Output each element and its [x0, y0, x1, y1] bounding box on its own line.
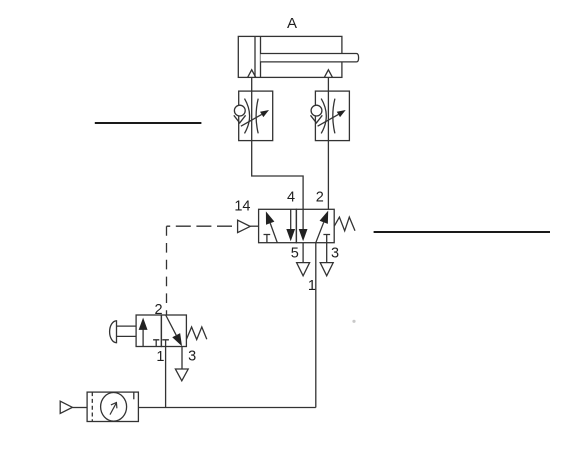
V2 throttle arcs — [321, 99, 335, 134]
U2 right square blocked port 1 — [162, 340, 169, 347]
one-way flow control valve V1 body — [239, 91, 273, 141]
V2 adjustment arrow — [318, 110, 346, 126]
U1 exhaust port 3 stub — [326, 243, 328, 263]
air service unit body — [87, 392, 138, 421]
wire cylinder left port to flow valve V1 and jog to 5/2 port 4 — [252, 77, 303, 209]
cylinder A body — [238, 36, 342, 77]
svg-text:1: 1 — [308, 278, 316, 294]
wire 5/2 port 1 down to supply manifold — [315, 243, 317, 408]
3/2-way valve U2 left position square — [136, 315, 161, 347]
U2 push button actuator — [110, 321, 137, 343]
U1 right square arrow 1 to 2 — [316, 211, 328, 243]
U1 right square blocked port 3 — [323, 235, 330, 243]
air service unit gauge circle — [101, 393, 127, 422]
supply manifold wire — [138, 407, 315, 409]
U1 exhaust port 3 triangle — [320, 263, 333, 276]
U1 left square arrow 2 to 3 — [286, 209, 295, 241]
one-way flow control valve V2 body — [315, 91, 349, 141]
U1 spring return — [334, 217, 355, 231]
stray mark — [352, 320, 355, 323]
U1 left square arrow 1 to 4 — [266, 211, 277, 242]
cylinder piston — [255, 36, 261, 77]
U2 left square blocked port 3 — [153, 340, 159, 347]
svg-text:2: 2 — [316, 190, 324, 206]
V1 adjustment arrow — [241, 110, 269, 126]
U2 exhaust port 3 triangle — [175, 369, 188, 381]
cylinder piston rod — [261, 54, 359, 62]
V1 check valve seat — [234, 115, 246, 123]
compressed air source triangle — [60, 401, 87, 413]
pilot control dashed line vertical down to U2 port 2 — [166, 226, 168, 315]
air service unit dashed separator — [91, 392, 93, 421]
V2 check valve seat — [311, 115, 323, 123]
U1 pilot port 14 triangle — [238, 220, 259, 232]
wire cylinder right port through flow valve V2 to 5/2 port 2 — [327, 77, 329, 209]
V2 check valve ball — [311, 105, 322, 116]
U1 exhaust port 5 triangle — [297, 263, 310, 276]
V1 throttle arcs — [245, 99, 259, 134]
svg-text:5: 5 — [291, 245, 299, 261]
air service unit gauge needle — [110, 403, 117, 415]
U1 exhaust port 5 stub — [302, 243, 304, 263]
pilot control dashed line horizontal from U1 port 14 — [167, 225, 238, 227]
svg-text:14: 14 — [234, 199, 250, 215]
svg-text:3: 3 — [188, 348, 196, 364]
svg-text:2: 2 — [154, 302, 162, 318]
cylinder port arrow right — [324, 70, 332, 78]
5/2-way valve U1 right position square — [296, 209, 334, 242]
U1 left square blocked port 5 — [264, 235, 271, 243]
svg-text:3: 3 — [331, 245, 339, 261]
U2 left square arrow 1 to 2 — [139, 318, 148, 347]
U2 spring return — [186, 327, 206, 340]
5/2-way valve U1 left position square — [259, 209, 297, 242]
answer blank line left — [95, 122, 202, 124]
3/2-way valve U2 right position square — [161, 315, 186, 347]
wire U2 port 1 down to supply manifold — [165, 347, 167, 408]
U1 right square arrow 4 to 5 — [299, 209, 308, 241]
cylinder port arrow left — [248, 70, 256, 78]
svg-text:1: 1 — [156, 349, 164, 365]
U2 exhaust port 3 stub — [181, 347, 183, 370]
V1 check valve ball — [234, 105, 245, 116]
answer blank line right — [374, 231, 550, 233]
svg-text:A: A — [287, 15, 297, 32]
svg-text:4: 4 — [287, 190, 295, 206]
air service unit top-right tick — [133, 392, 135, 399]
U2 right square arrow 2 to 3 — [166, 315, 182, 346]
